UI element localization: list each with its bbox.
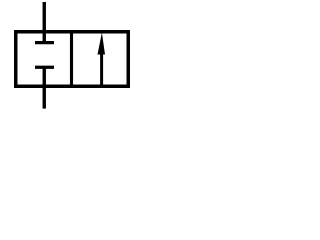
flow arrow head: [98, 33, 106, 55]
blocked port T (bottom): [35, 66, 54, 69]
flow arrow shaft: [100, 50, 103, 87]
valve body box: [16, 32, 129, 87]
position divider: [70, 30, 73, 88]
blocked port T (top): [35, 41, 54, 44]
bottom port line: [43, 67, 46, 108]
top port line: [43, 2, 46, 43]
